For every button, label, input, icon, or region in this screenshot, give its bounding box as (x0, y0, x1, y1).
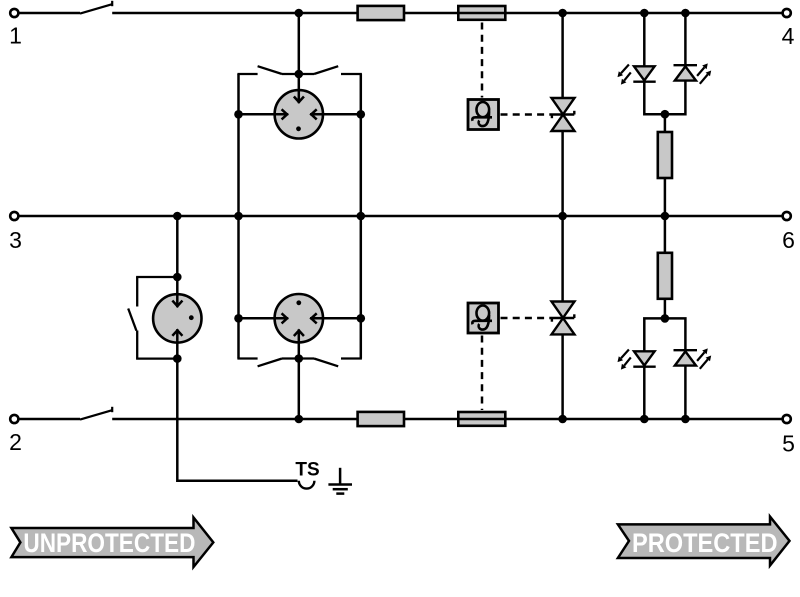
wire line3 to R4 (664, 216, 667, 253)
node line1/LED right branch (681, 9, 690, 18)
wire line3 to GDT3 (176, 216, 179, 277)
TS test socket (295, 460, 319, 489)
node line2/GDT2 feed (295, 415, 304, 424)
node line3/GDT3 (173, 212, 182, 221)
node GDT1 center junction (295, 70, 304, 79)
resistor R1 on line 1 (358, 6, 404, 20)
wire below V2 (665, 81, 686, 115)
thermal sensor TH2 (468, 303, 499, 333)
disconnect switches below GDT U2 (237, 359, 362, 367)
fuse F2 on line 2 (457, 412, 507, 426)
LED V3 (green, down) (618, 350, 656, 370)
wire R3 to line3 (664, 178, 667, 216)
node line3/right rail (357, 212, 366, 221)
dashed link TH1 to D1 (501, 113, 553, 116)
wire line1 left segment (18, 12, 80, 15)
thermal sensor TH1 (468, 100, 499, 130)
wire line3 (middle) (18, 215, 782, 218)
LED V1 (green, down) (618, 65, 656, 85)
wire GDT2 to line2 (298, 359, 301, 420)
resistor R4 (vertical) (658, 253, 672, 299)
node rail-right / U2 electrode (357, 314, 366, 323)
fuse F1 on line 1 (457, 6, 507, 20)
node rail-left / U1 electrode (234, 110, 243, 119)
svg-text:1: 1 (9, 23, 22, 49)
disconnect switch bracket left of U3 (128, 277, 177, 359)
UNPROTECTED banner arrow (11, 518, 213, 568)
svg-text:5: 5 (782, 431, 795, 457)
wire line2 main segment (112, 418, 782, 421)
wire TVS rail lower (561, 216, 564, 419)
TVS suppressor diode D1 (bidirectional) (552, 98, 575, 131)
resistor R2 on line 2 (358, 412, 404, 426)
node rail-right / U1 electrode (357, 110, 366, 119)
wire LED bottom-right branch (665, 318, 686, 351)
wire to R3 (664, 114, 667, 132)
wire right rail (x=360.8) (360, 74, 363, 359)
terminal 4 (782, 9, 795, 49)
node LED join top (661, 110, 670, 119)
node line3/indicator chain (661, 212, 670, 221)
wire TVS rail upper (561, 13, 564, 216)
wire LED bottom-left branch (644, 318, 665, 351)
node line3/TVS rail (558, 212, 567, 221)
node line1/GDT1 feed (295, 9, 304, 18)
gas discharge tube U3 (2-electrode) (153, 277, 201, 359)
svg-text:2: 2 (9, 429, 22, 455)
terminal 6 (782, 212, 795, 253)
switch S2 (thermal disconnect) on line 2 (80, 407, 112, 420)
wire left rail (x=238.5) (237, 74, 240, 359)
node line1/TVS rail (558, 9, 567, 18)
wire R4 to LED join bottom (664, 299, 667, 319)
svg-text:4: 4 (782, 23, 795, 49)
svg-text:UNPROTECTED: UNPROTECTED (23, 528, 195, 558)
node rail-left / U2 electrode (234, 314, 243, 323)
LED V2 (red, up) (674, 63, 712, 83)
terminal 1 (9, 9, 22, 49)
wire below V1 (644, 82, 665, 115)
wire below V4 (684, 366, 687, 419)
dashed link TH2 to D2 (501, 317, 553, 320)
svg-text:PROTECTED: PROTECTED (632, 528, 778, 558)
terminal 2 (9, 415, 22, 455)
LED V4 (red, up) (674, 348, 712, 368)
wire line2 left segment (18, 418, 80, 421)
node GDT2 center junction (295, 354, 304, 363)
node line2/LED left branch (640, 415, 649, 424)
node GDT3 bottom (173, 354, 182, 363)
wire LED top-left branch (643, 13, 646, 66)
node line3/left rail (234, 212, 243, 221)
svg-text:6: 6 (782, 227, 795, 253)
svg-text:3: 3 (9, 227, 22, 253)
node line2/TVS rail (558, 415, 567, 424)
node LED join bottom (661, 314, 670, 323)
switch S1 (thermal disconnect) on line 1 (80, 1, 112, 14)
wire LED top-right branch (684, 13, 687, 66)
node GDT3 top (173, 273, 182, 282)
terminal 5 (782, 415, 795, 457)
resistor R3 (vertical) (658, 132, 672, 178)
TVS suppressor diode D2 (bidirectional) (552, 302, 575, 335)
dashed link F1 to TH1 (481, 23, 484, 98)
svg-text:TS: TS (295, 460, 319, 481)
ground symbol (328, 468, 352, 494)
terminal 3 (9, 212, 22, 253)
node line2/LED right branch (681, 415, 690, 424)
dashed link TH2 to F2 (481, 336, 484, 411)
wire GDT3 to TS test point (177, 359, 297, 481)
node line1/LED left branch (640, 9, 649, 18)
PROTECTED banner arrow (618, 517, 790, 566)
wire GDT1 center feed (298, 13, 301, 74)
gas discharge tube U1 (3-electrode) (239, 74, 361, 139)
disconnect switches above GDT U1 (237, 66, 362, 74)
gas discharge tube U2 (3-electrode, mirrored) (239, 294, 361, 359)
wire below V3 (643, 367, 646, 419)
wire line1 main segment (112, 12, 782, 15)
